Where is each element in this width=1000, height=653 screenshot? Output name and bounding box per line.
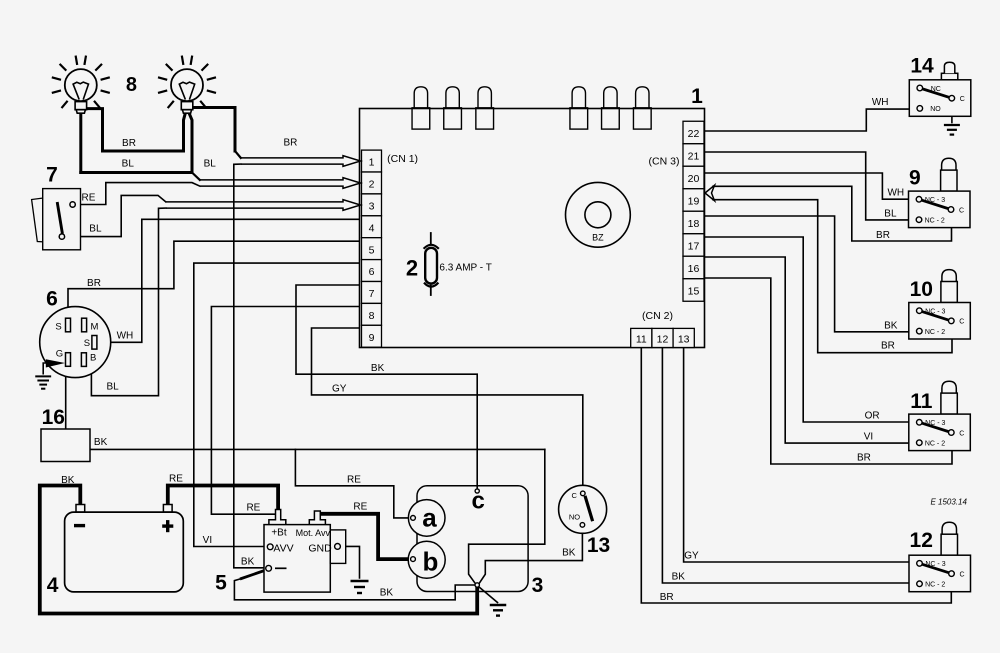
svg-text:NC - 3: NC - 3 xyxy=(925,420,945,427)
svg-text:NC - 2: NC - 2 xyxy=(925,218,945,225)
svg-text:4: 4 xyxy=(47,574,59,597)
svg-text:WH: WH xyxy=(872,97,889,108)
svg-text:BL: BL xyxy=(89,224,102,235)
svg-text:15: 15 xyxy=(688,286,700,298)
svg-text:20: 20 xyxy=(688,173,700,185)
svg-text:BR: BR xyxy=(283,138,297,149)
svg-text:6: 6 xyxy=(369,266,375,278)
svg-text:M: M xyxy=(91,322,99,333)
svg-text:NC - 3: NC - 3 xyxy=(925,309,945,316)
svg-text:BK: BK xyxy=(61,475,75,486)
svg-text:RE: RE xyxy=(246,502,260,513)
svg-text:1: 1 xyxy=(369,157,375,169)
svg-text:WH: WH xyxy=(887,188,904,199)
svg-text:RE: RE xyxy=(353,502,367,513)
svg-text:6: 6 xyxy=(46,287,58,310)
svg-text:C: C xyxy=(959,571,964,578)
svg-text:5: 5 xyxy=(369,244,375,256)
svg-text:BK: BK xyxy=(94,437,108,448)
svg-text:OR: OR xyxy=(865,410,880,421)
svg-text:BZ: BZ xyxy=(592,233,604,243)
svg-text:8: 8 xyxy=(369,310,375,322)
svg-text:S: S xyxy=(55,322,61,333)
svg-text:12: 12 xyxy=(657,334,669,346)
svg-text:3: 3 xyxy=(532,574,544,597)
svg-text:C: C xyxy=(959,207,964,214)
svg-text:(CN 3): (CN 3) xyxy=(649,155,680,167)
svg-text:S: S xyxy=(84,338,90,349)
svg-text:4: 4 xyxy=(369,222,375,234)
svg-text:2: 2 xyxy=(406,256,418,281)
svg-text:5: 5 xyxy=(215,571,227,594)
svg-text:NC - 3: NC - 3 xyxy=(925,561,945,568)
svg-text:a: a xyxy=(422,503,437,533)
svg-text:+Bt: +Bt xyxy=(271,528,287,539)
svg-text:7: 7 xyxy=(369,288,375,300)
svg-text:RE: RE xyxy=(347,475,361,486)
svg-text:BR: BR xyxy=(660,592,674,603)
svg-text:9: 9 xyxy=(369,332,375,344)
svg-text:BK: BK xyxy=(884,320,898,331)
svg-text:NC - 2: NC - 2 xyxy=(925,329,945,336)
svg-text:VI: VI xyxy=(864,431,873,442)
svg-text:13: 13 xyxy=(587,534,610,557)
svg-text:BR: BR xyxy=(122,138,136,149)
svg-text:GY: GY xyxy=(684,551,699,562)
svg-text:RE: RE xyxy=(82,193,96,204)
svg-text:BL: BL xyxy=(106,382,119,393)
svg-text:BK: BK xyxy=(371,363,385,374)
svg-text:13: 13 xyxy=(678,334,690,346)
svg-text:G: G xyxy=(56,348,63,359)
svg-text:c: c xyxy=(472,488,485,515)
svg-text:BR: BR xyxy=(881,341,895,352)
svg-text:NC - 2: NC - 2 xyxy=(925,582,945,589)
svg-text:BL: BL xyxy=(122,159,135,170)
svg-text:18: 18 xyxy=(688,218,700,230)
svg-text:(CN 2): (CN 2) xyxy=(642,310,673,322)
svg-text:16: 16 xyxy=(42,406,65,429)
svg-text:10: 10 xyxy=(910,278,933,301)
svg-text:E 1503.14: E 1503.14 xyxy=(930,498,967,507)
svg-text:21: 21 xyxy=(688,151,700,163)
svg-text:AVV: AVV xyxy=(273,542,293,554)
svg-text:C: C xyxy=(959,430,964,437)
svg-text:VI: VI xyxy=(203,535,212,546)
svg-text:17: 17 xyxy=(688,241,700,253)
svg-text:8: 8 xyxy=(126,74,137,96)
svg-text:(CN 1): (CN 1) xyxy=(387,153,418,165)
svg-text:GND: GND xyxy=(308,542,332,554)
svg-text:NC: NC xyxy=(931,86,941,93)
svg-text:BK: BK xyxy=(380,587,394,598)
svg-text:7: 7 xyxy=(46,164,58,187)
svg-text:b: b xyxy=(423,547,439,577)
svg-text:2: 2 xyxy=(369,179,375,191)
svg-text:NC - 2: NC - 2 xyxy=(925,441,945,448)
svg-text:3: 3 xyxy=(369,201,375,213)
svg-text:BR: BR xyxy=(876,230,890,241)
svg-text:NO: NO xyxy=(569,513,580,522)
svg-text:B: B xyxy=(90,353,96,364)
svg-text:NC - 3: NC - 3 xyxy=(925,197,945,204)
svg-text:14: 14 xyxy=(910,55,934,78)
svg-text:BL: BL xyxy=(204,159,217,170)
svg-text:11: 11 xyxy=(636,334,647,346)
svg-text:11: 11 xyxy=(910,390,933,413)
svg-text:BR: BR xyxy=(87,278,101,289)
svg-text:6.3 AMP - T: 6.3 AMP - T xyxy=(439,263,491,274)
svg-text:12: 12 xyxy=(910,529,933,552)
svg-text:BK: BK xyxy=(672,571,686,582)
svg-text:GY: GY xyxy=(332,383,347,394)
svg-text:BK: BK xyxy=(562,548,576,559)
svg-text:9: 9 xyxy=(909,166,921,189)
svg-text:WH: WH xyxy=(117,331,134,342)
svg-text:1: 1 xyxy=(691,85,703,108)
svg-text:C: C xyxy=(960,96,965,103)
svg-text:16: 16 xyxy=(688,263,700,275)
svg-text:C: C xyxy=(959,319,964,326)
svg-text:BR: BR xyxy=(857,452,871,463)
svg-text:22: 22 xyxy=(688,128,700,140)
svg-text:BL: BL xyxy=(884,209,897,220)
svg-text:19: 19 xyxy=(688,196,700,208)
svg-text:Mot. Avv: Mot. Avv xyxy=(296,528,331,538)
svg-text:NO: NO xyxy=(930,106,941,113)
svg-text:RE: RE xyxy=(169,474,183,485)
svg-text:C: C xyxy=(571,491,577,500)
svg-text:BK: BK xyxy=(241,556,255,567)
